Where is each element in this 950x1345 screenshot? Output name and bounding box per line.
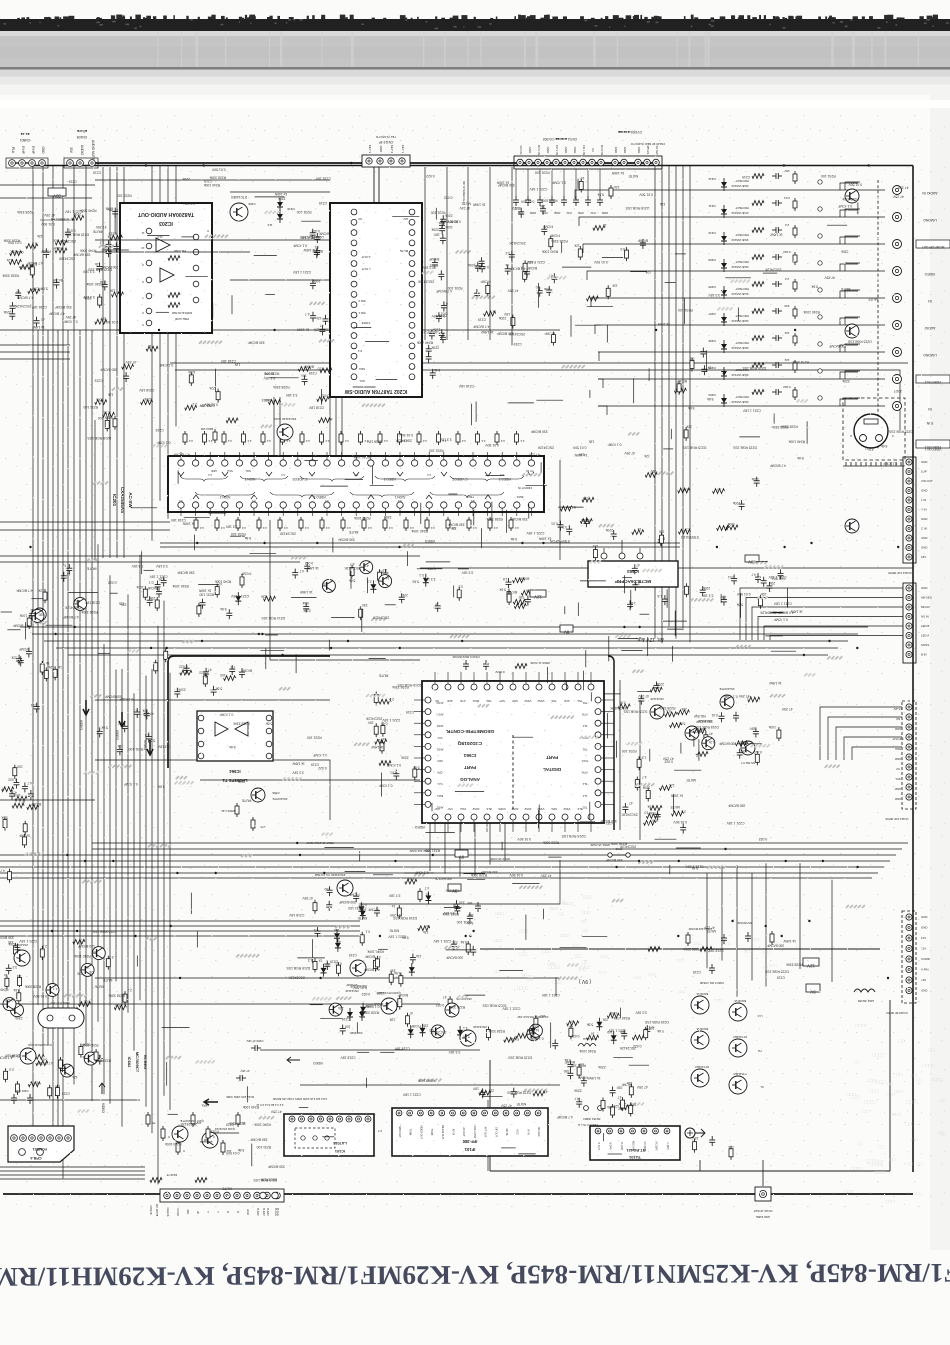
wire (92, 162, 330, 164)
connector JW154 (578, 1106, 602, 1127)
capacitor C744 (16, 655, 22, 665)
wire center bus (169, 673, 171, 1110)
resistor R617 (549, 233, 560, 249)
resistor R465 (299, 517, 309, 531)
wire video bus (92, 848, 902, 850)
capacitor C675 (737, 749, 748, 759)
capacitor C664 (728, 575, 737, 585)
capacitor C743 (301, 374, 308, 386)
resistor R660 (747, 695, 760, 702)
capacitor C695 (565, 1060, 576, 1071)
transistor Q102 (202, 1127, 235, 1148)
capacitor C662 (778, 569, 784, 579)
diode D218 limiter (267, 198, 294, 227)
resistor R755 (122, 364, 134, 369)
resistor R590 (221, 803, 239, 817)
resistor R771 (13, 765, 23, 779)
resistor R656 (618, 701, 630, 709)
resistor R646 (660, 783, 675, 790)
capacitor C647 (536, 285, 543, 297)
resistor R779 (659, 530, 665, 547)
resistor R666 (418, 886, 429, 902)
resistor R638 (381, 721, 388, 736)
wire (170, 362, 908, 364)
connector jack IN (928, 299, 932, 303)
wire center bus (145, 676, 147, 1107)
resistor R745 (579, 176, 584, 193)
transistor Q504 (702, 737, 715, 750)
transistor Q112 band switch (691, 1027, 709, 1049)
wire (300, 1084, 560, 1086)
wire (330, 162, 655, 164)
wire (752, 607, 903, 640)
capacitor C666 (390, 770, 399, 780)
label IC201 (112, 487, 133, 513)
resistor R738 (618, 1102, 632, 1110)
capacitor C646 (505, 263, 511, 275)
label VIDEO note (424, 535, 698, 543)
wire (95, 699, 330, 701)
resistor R701 (17, 974, 22, 988)
wire thick corner IC564 (168, 656, 330, 768)
capacitor C696 (74, 1007, 80, 1017)
capacitor C723 (133, 708, 140, 718)
wire (95, 251, 250, 253)
wire left bus (57, 330, 59, 1135)
wire center bus (109, 575, 111, 1103)
resistor R694 (40, 944, 47, 960)
diode D413 (360, 1003, 373, 1016)
capacitor C607 (15, 289, 21, 299)
resistor R690 (644, 1026, 655, 1041)
capacitor C623 (441, 302, 448, 312)
capacitor C656 (292, 569, 304, 579)
resistor R773 (1, 816, 8, 831)
resistor R612 (72, 212, 84, 220)
resistor R717 (149, 596, 159, 611)
resistor R758 (141, 397, 153, 404)
wire (0, 925, 360, 927)
wire (424, 167, 426, 340)
resistor R639 (367, 721, 378, 738)
resistor R766 (188, 370, 196, 386)
resistor R628 (350, 562, 355, 578)
resistor R714 (136, 585, 147, 600)
capacitor C671 (654, 682, 665, 692)
transistor Q111 band switch (729, 999, 747, 1021)
svg-text:B: B (236, 1211, 240, 1213)
resistor R446 (300, 431, 310, 445)
resistor R716 (164, 648, 168, 662)
resistor R461 (215, 517, 225, 531)
resistor R634 (514, 601, 526, 609)
resistor R134 (206, 1126, 215, 1141)
resistor R721 (40, 661, 49, 675)
diode D209 protect row (587, 250, 902, 280)
resistor R468 (362, 517, 372, 531)
capacitor C701 (149, 581, 161, 591)
resistor R687 (607, 1011, 619, 1018)
resistor R698 (52, 1008, 64, 1013)
wire left bus (91, 330, 93, 1101)
capacitor C653 (304, 561, 313, 572)
transistor Q605 (719, 687, 734, 709)
resistor R692 (567, 1019, 579, 1025)
resistor R699 (114, 1003, 126, 1010)
diode D405 (335, 939, 341, 952)
resistor R624 (197, 603, 201, 617)
wire inner box bottom (490, 1170, 890, 1172)
resistor R622 (457, 585, 463, 601)
capacitor C663 (761, 577, 767, 587)
capacitor C734 (472, 1087, 485, 1099)
resistor R736 (611, 1104, 619, 1118)
capacitor C745 (8, 942, 20, 953)
wire (0, 799, 95, 801)
diode D212 protect row (575, 169, 902, 199)
capacitor C741 (701, 365, 711, 375)
label bus notes (306, 841, 610, 861)
wire (167, 166, 169, 519)
connector jack L/MONO (923, 218, 937, 222)
resistor R685 (504, 1037, 519, 1042)
capacitor C602 (105, 207, 118, 218)
diode D407 (334, 928, 340, 942)
capacitor C620 (427, 330, 438, 340)
resistor R631 (499, 587, 511, 602)
connector jack AUDIO IN (922, 191, 938, 195)
capacitor C690 (463, 1031, 469, 1041)
resistor R471 (425, 517, 435, 531)
resistor R780 (678, 527, 690, 534)
transistor Q501 (322, 579, 335, 592)
capacitor C742 (123, 372, 129, 382)
wire center bus (151, 669, 153, 1133)
IC U IC101 LA7016 (284, 1114, 382, 1156)
diode D408 (358, 902, 367, 915)
resistor R713 (58, 1057, 62, 1071)
transistor Q503 (360, 561, 373, 574)
label 9V box4 (806, 984, 820, 994)
transistor Q109 VC amp (345, 960, 366, 993)
wire bottom rail (3, 1193, 913, 1195)
svg-text:B: B (226, 1211, 230, 1213)
resistor R708 (94, 1049, 98, 1063)
label VIDEO arrow1 (99, 1083, 105, 1113)
resistor R764 (298, 365, 314, 372)
IC U IC561 CXD2018Q geometry control (414, 672, 614, 832)
wire (852, 747, 902, 760)
wire (682, 166, 684, 629)
resistor R707 (32, 1054, 44, 1059)
capacitor C736 (610, 1085, 623, 1096)
capacitor C638 (474, 289, 480, 299)
wire 12V bus (44, 640, 848, 642)
resistor R684 (486, 1027, 490, 1041)
capacitor C679 (324, 886, 332, 896)
resistor R667 (391, 904, 401, 919)
inductor L101 (578, 1037, 597, 1046)
label VIDEO arrows (79, 700, 153, 755)
wire (260, 1049, 480, 1051)
capacitor C544 (483, 660, 505, 674)
wire (0, 1003, 440, 1005)
transistor Q513 (46, 984, 59, 997)
IC U IF101 IFF-380 IF module (392, 1108, 548, 1156)
wire left bus (32, 166, 34, 1128)
wire (474, 823, 476, 876)
label 12V box (530, 590, 546, 599)
resistor R649 (644, 811, 658, 819)
resistor R774 (0, 869, 11, 883)
wire (429, 823, 431, 871)
capacitor C609 (3, 310, 15, 320)
resistor R623 (378, 568, 388, 583)
capacitor C715 (551, 521, 564, 531)
svg-text:B-DAT: B-DAT (266, 1208, 270, 1216)
transistor Q204 (273, 417, 296, 440)
resistor R472 (446, 517, 456, 531)
wire (270, 520, 420, 660)
capacitor C670 (638, 695, 644, 705)
wire (420, 567, 913, 569)
resistor R753 (684, 424, 692, 441)
resistor R139 (150, 1173, 207, 1182)
resistor R770 (185, 402, 197, 410)
resistor R453 (437, 431, 447, 445)
diode D104 DAP202K (347, 1008, 365, 1035)
capacitor C692 (578, 1075, 588, 1086)
capacitor C648 (548, 273, 557, 283)
capacitor C657 (503, 577, 512, 588)
resistor R705 (48, 1085, 52, 1099)
wire main top bus (33, 165, 913, 167)
wire center bus (163, 601, 165, 1096)
IC U IC203 TA8200AH audio out (120, 203, 212, 333)
resistor R653 (677, 707, 689, 715)
resistor R719 (19, 613, 31, 629)
resistor R722 (44, 665, 54, 681)
resistor R686 (577, 1062, 584, 1078)
capacitor C719 (632, 563, 640, 574)
wire (459, 823, 461, 877)
resistor R720 (53, 665, 62, 680)
resistor R130 (146, 1112, 156, 1127)
capacitor C708 (30, 703, 39, 713)
label MPX arrow (201, 1095, 254, 1107)
wire (675, 166, 677, 639)
capacitor C722 (118, 721, 128, 732)
wire (116, 167, 118, 558)
capacitor C614 (438, 270, 444, 280)
transistor Q106 (445, 997, 472, 1017)
wire video bus (92, 842, 908, 844)
resistor R456 (495, 431, 505, 445)
resistor R739 (622, 1083, 634, 1098)
resistor R449 (359, 431, 369, 445)
node 12V (636, 636, 664, 642)
resistor R657 (650, 687, 662, 692)
resistor R672 (405, 877, 417, 885)
capacitor C650 (302, 601, 309, 612)
capacitor C721 (632, 581, 640, 591)
transistor Q31 buffer (845, 324, 859, 338)
capacitor C621 (426, 345, 439, 355)
resistor R696 (8, 940, 18, 957)
resistor R448 (339, 431, 349, 445)
wire (0, 1178, 145, 1180)
wire (668, 166, 670, 627)
resistor R619 (503, 312, 515, 329)
connector CN115 (886, 911, 930, 1015)
wire (0, 561, 300, 563)
resistor R661 (696, 752, 708, 757)
diode D204 protect row (598, 385, 902, 415)
wire (200, 779, 420, 781)
capacitor C700 (147, 596, 153, 606)
resistor R630 (521, 589, 533, 596)
capacitor C633 (319, 323, 325, 335)
resistor R710 (79, 1043, 90, 1058)
wire (504, 823, 506, 861)
capacitor C740 (700, 348, 706, 358)
capacitor C626 (433, 233, 446, 245)
wire (160, 546, 680, 548)
resistor R688 (587, 1032, 599, 1040)
wire center bus (115, 670, 117, 982)
resistor R635 (759, 592, 767, 609)
resistor R759 (95, 398, 107, 405)
capacitor C704 (62, 563, 72, 574)
diode D409 (409, 963, 415, 976)
capacitor C661 (700, 586, 711, 596)
wire 9V line (95, 977, 560, 979)
resistor R775 (23, 821, 27, 835)
wire left bus (42, 166, 44, 1056)
resistor R442 (222, 431, 232, 445)
resistor R652 (670, 723, 682, 728)
resistor R443 (242, 431, 252, 445)
transistor Q105 (460, 1025, 487, 1046)
capacitor C615 (429, 257, 440, 269)
resistor R778 (645, 469, 657, 477)
resistor R651 (672, 809, 687, 816)
wire (0, 1166, 145, 1168)
wire (95, 239, 330, 241)
wire (480, 948, 880, 950)
capacitor C632 (314, 232, 329, 243)
capacitor C698 (94, 1054, 103, 1065)
capacitor C608 (52, 278, 63, 289)
resistor R700 (13, 988, 21, 1004)
capacitor C251 (525, 169, 536, 215)
resistor R662 network (648, 921, 774, 951)
resistor R671 (365, 955, 378, 972)
capacitor C726 (97, 725, 108, 737)
wire (765, 863, 767, 986)
resistor R473 (467, 517, 477, 531)
wire (175, 370, 900, 430)
resistor R655 (665, 709, 677, 717)
wire center bus (103, 644, 105, 1094)
capacitor C747 (658, 536, 665, 546)
wire right border (912, 166, 914, 1173)
resistor R641 (374, 692, 378, 706)
capacitor C651 (378, 569, 388, 579)
capacitor C627 (436, 312, 448, 323)
capacitor C254 (561, 169, 572, 215)
transistor Q518 (73, 597, 86, 610)
transistor Q313 (14, 943, 30, 966)
wire left bus (79, 330, 81, 1006)
capacitor C727 (117, 744, 123, 755)
antenna input J101 (685, 1128, 705, 1138)
resistor R679 (443, 995, 452, 1010)
resistor R440 (183, 431, 193, 445)
label 30V box (48, 188, 66, 198)
wire center bus (133, 693, 135, 1050)
capacitor C677 (368, 907, 380, 917)
resistor R734 (533, 1089, 548, 1096)
diode D401 (419, 573, 429, 587)
capacitor C714 (562, 525, 572, 535)
wire 12V bus (68, 654, 828, 656)
resistor R647 (642, 786, 650, 802)
resistor R704 (36, 1057, 48, 1065)
capacitor C731 (174, 688, 185, 698)
transistor Q606 (741, 741, 755, 765)
label VIDEO IN 1 box (916, 440, 950, 449)
label MONITOR OUT box (916, 240, 950, 249)
wire (341, 397, 343, 457)
wire center bus (157, 626, 159, 1185)
wire (661, 166, 663, 644)
resistor R616 (520, 266, 527, 283)
wire center bus (97, 544, 99, 1022)
resistor R664 (753, 750, 762, 765)
resistor R475 (509, 517, 519, 531)
label VIDEO IN 2 box (916, 375, 950, 384)
resistor R615 (480, 279, 490, 296)
resistor R768 (226, 418, 238, 423)
wire left bus (62, 166, 64, 1179)
resistor R633 (513, 577, 530, 583)
resistor R605 (26, 241, 38, 248)
connector jack AUDIO (924, 326, 935, 330)
resistor R781 (678, 487, 690, 493)
resistor R740 (618, 1095, 625, 1111)
resistor R725 (582, 497, 594, 503)
svg-text:B-CLK: B-CLK (274, 1208, 278, 1216)
wire (175, 166, 177, 427)
resistor R723 (13, 793, 27, 801)
transistor Q507 (527, 1028, 542, 1041)
capacitor C730 (229, 665, 235, 675)
connector CN114 (885, 701, 916, 821)
capacitor C703 (147, 586, 162, 598)
transistor Q510 (92, 947, 105, 960)
transistor Q32 buffer (845, 519, 859, 533)
resistor R604 (107, 234, 122, 240)
resistor R670 (394, 971, 403, 987)
svg-text:GND 2xB/E: GND 2xB/E (756, 1215, 770, 1219)
resistor R135 (221, 1140, 231, 1155)
resistor R665 (313, 900, 317, 914)
wire (511, 167, 513, 345)
wire (95, 760, 330, 820)
diode D411 (457, 1026, 468, 1039)
resistor R627 (359, 603, 368, 620)
